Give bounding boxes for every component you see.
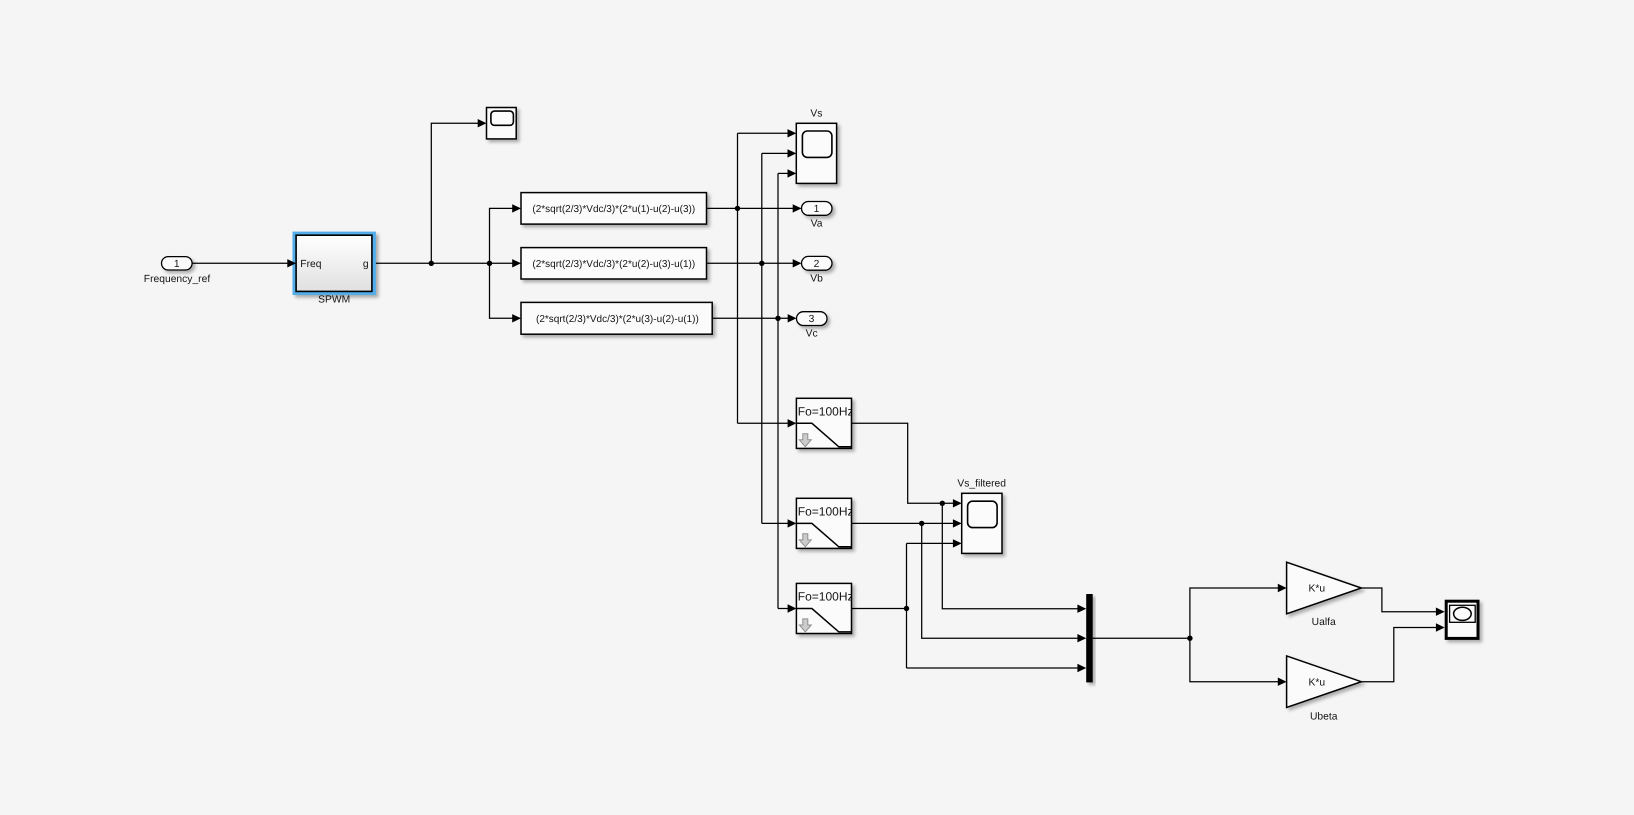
filter1 gray down arrow [799,434,811,447]
wire Fcn3 out to outport Vc [712,314,796,322]
svg-text:2: 2 [814,259,820,270]
mux Mux [1086,594,1093,682]
wire mux out to node G [1093,636,1193,641]
svg-text:Vb: Vb [810,273,823,284]
wire node D down to mux in1 [942,503,1086,613]
wire node G up to gain Ualfa [1190,584,1287,638]
svg-text:Vs_filtered: Vs_filtered [957,479,1006,490]
svg-text:K*u: K*u [1308,584,1325,595]
wire Fcn1 out to outport Va [707,204,802,212]
svg-text:Va: Va [811,218,823,229]
outport 2 Vb [802,256,833,270]
filter3 text [798,590,854,604]
wire node C vertical to Vs in3 and filter3 [778,169,796,613]
wire branch to Fcn1 [490,204,522,263]
wire node B vertical to Vs in2 and filter2 [762,149,797,527]
svg-text:Ualfa: Ualfa [1312,617,1336,628]
gain Ualfa K*u [1287,562,1362,614]
filter block 3 Fo=100Hz [796,583,851,633]
svg-text:Ubeta: Ubeta [1310,711,1338,722]
wire Ubeta out to XY graph in2 [1361,623,1444,681]
wire filter2 out to Vs_filtered in2 [852,519,962,527]
wire SPWM output trunk to Fcn2 [376,259,521,267]
svg-text:(2*sqrt(2/3)*Vdc/3)*(2*u(2)-u(: (2*sqrt(2/3)*Vdc/3)*(2*u(2)-u(3)-u(1)) [532,259,695,270]
svg-text:Vc: Vc [806,329,818,340]
svg-text:(2*sqrt(2/3)*Vdc/3)*(2*u(1)-u(: (2*sqrt(2/3)*Vdc/3)*(2*u(1)-u(2)-u(3)) [532,204,695,215]
wire Fcn2 out to outport Vb [707,259,802,267]
svg-text:g: g [363,259,369,270]
wire node G down to gain Ubeta [1190,638,1287,686]
wire inport to SPWM [192,259,296,267]
xy graph ellipse [1454,607,1472,620]
wire Ualfa out to XY graph in1 [1361,588,1444,616]
scope Vs_filtered [962,493,1002,553]
fcn block Fcn Va [521,193,707,225]
svg-text:(2*sqrt(2/3)*Vdc/3)*(2*u(3)-u(: (2*sqrt(2/3)*Vdc/3)*(2*u(3)-u(2)-u(1)) [536,314,699,325]
filter1 response curve [796,423,851,447]
wire branch to Fcn3 [490,263,522,322]
svg-text:K*u: K*u [1308,677,1325,688]
fcn block Fcn2 Vc [521,302,712,334]
filter3 response curve [796,609,851,632]
xy graph block [1446,601,1478,638]
scope Scope (small, top) [487,108,517,139]
svg-text:Freq: Freq [300,259,321,270]
filter block 1 Fo=100Hz [796,398,851,448]
svg-text:1: 1 [174,259,180,270]
outport 3 Vc [797,312,828,326]
gain Ubeta K*u [1287,656,1362,708]
scope Vs [796,123,836,183]
svg-text:Fo=100Hz: Fo=100Hz [798,590,854,604]
wire filter3 out to node F [852,606,910,611]
svg-text:1: 1 [814,204,820,215]
wire node A vertical to Vs in1 and filter1 [738,129,797,427]
wire node E down to mux in2 [922,523,1086,642]
filter2 response curve [796,523,851,546]
svg-text:Frequency_ref: Frequency_ref [144,274,211,285]
wire filter1 out to Vs_filtered in1 [852,423,962,507]
svg-text:Fo=100Hz: Fo=100Hz [798,505,854,519]
scope Vs screen [802,131,832,157]
outport 1 Va [802,202,833,216]
svg-text:Fo=100Hz: Fo=100Hz [798,405,854,419]
svg-text:3: 3 [809,314,815,325]
wire branch up to Scope [431,119,486,263]
filter3 gray down arrow [799,619,811,632]
filter2 gray down arrow [799,534,811,547]
wire node F up to Vs_filtered in3 and down to mux in3 [907,539,1087,672]
svg-text:SPWM: SPWM [318,294,350,305]
fcn block Fcn1 Vb [521,248,707,279]
scope Scope screen [491,111,514,125]
subsystem SPWM (selected, blue highlight) [293,232,376,295]
svg-text:Vs: Vs [810,108,822,119]
xy graph screen [1450,605,1476,622]
filter1 text [798,405,854,419]
scope Vs_filtered screen [968,501,998,527]
filter2 text [798,505,854,519]
filter block 2 Fo=100Hz [796,498,851,548]
inport 1 Frequency_ref [162,257,193,270]
